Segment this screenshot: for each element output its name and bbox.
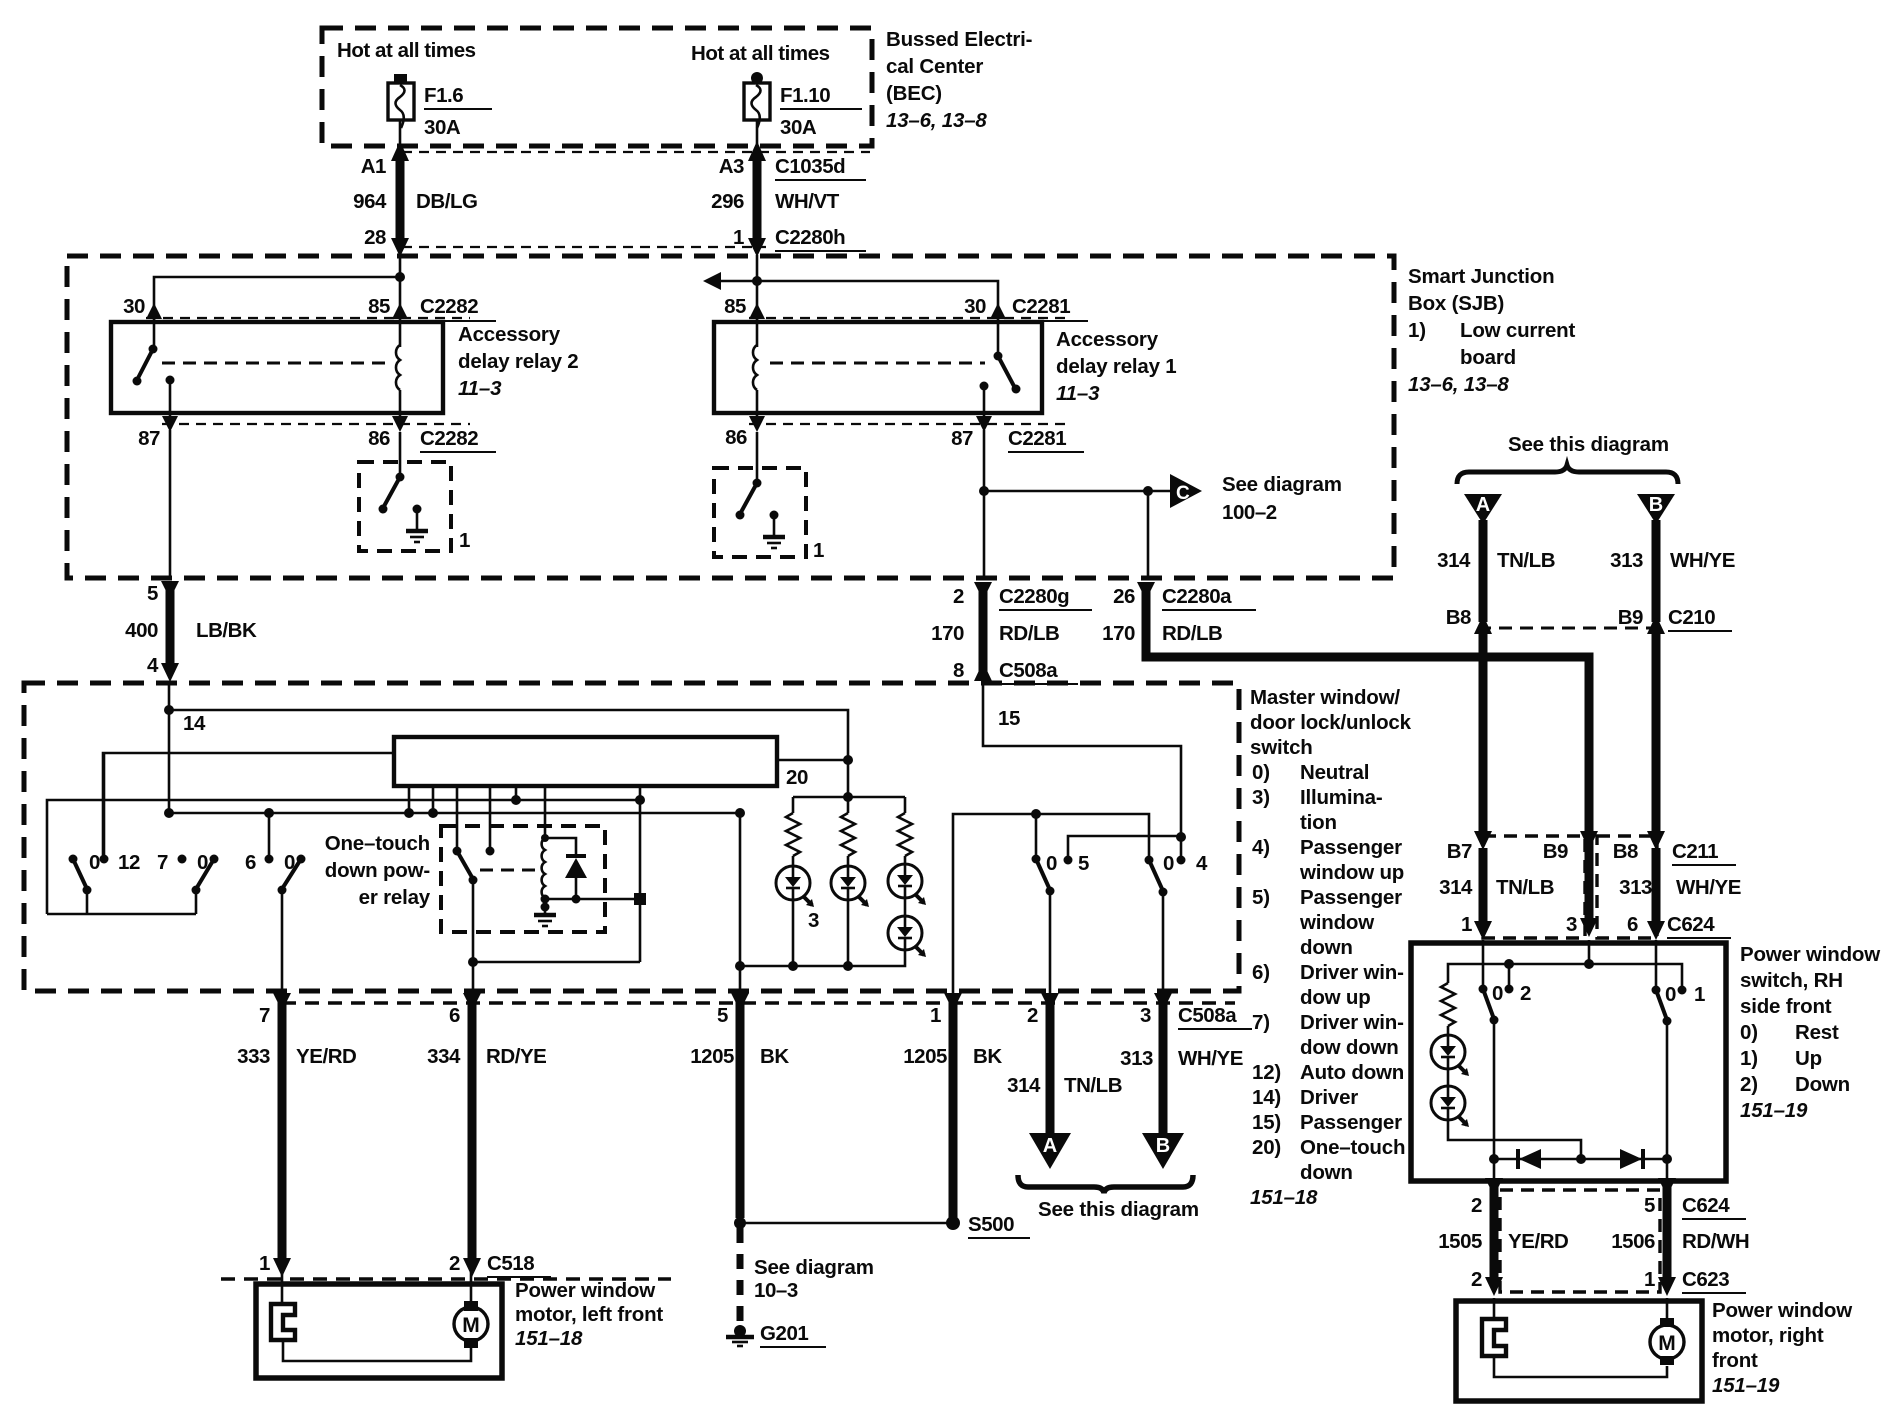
svg-text:C2282: C2282 — [420, 427, 478, 450]
svg-text:M: M — [1658, 1332, 1676, 1355]
node: pin 14 junction — [164, 705, 174, 715]
wire: bus left edge to contact 12 — [103, 753, 395, 855]
node: rail at LED1 — [788, 961, 798, 971]
node: rail at contact 2 stub — [1504, 959, 1514, 969]
svg-text:delay relay 1: delay relay 1 — [1056, 355, 1177, 378]
fuse F1.10 30A — [744, 72, 770, 128]
ground symbol (one-touch relay) — [534, 899, 556, 926]
resistor R3 (illumination branch 3) — [898, 797, 912, 865]
box: Master window/door lock/unlock switch — [24, 683, 1239, 991]
wire: pin 28 into SJB down to node — [399, 255, 402, 277]
node: LB at switch 3 feed — [264, 808, 274, 818]
svg-text:1: 1 — [459, 529, 470, 552]
svg-text:6): 6) — [1252, 961, 1270, 984]
label: F1.6 / 30A — [424, 84, 492, 139]
svg-text:See this diagram: See this diagram — [1508, 433, 1669, 456]
svg-text:30: 30 — [964, 295, 986, 318]
svg-text:86: 86 — [368, 427, 390, 450]
wire: bus stub 2 — [432, 786, 435, 813]
node: junction 15 at contact 4 — [1176, 832, 1186, 842]
svg-text:85: 85 — [724, 295, 746, 318]
wire: right motor internal loop — [1494, 1356, 1667, 1377]
node: right output at diode rail — [1662, 1154, 1672, 1164]
svg-text:RD/YE: RD/YE — [486, 1045, 546, 1068]
svg-text:Passenger: Passenger — [1300, 886, 1402, 909]
svg-text:14): 14) — [1252, 1086, 1281, 1109]
node: diode bottom — [572, 895, 581, 904]
svg-text:30A: 30A — [780, 116, 817, 139]
svg-text:TN/LB: TN/LB — [1064, 1074, 1122, 1097]
svg-text:C2282: C2282 — [420, 295, 478, 318]
wire: fuse F1.6 to A1 — [399, 120, 402, 150]
switch: RH down (0/2) — [1479, 985, 1514, 1025]
LED 3 (illumination) — [888, 864, 926, 905]
wire: stub to contact 2 — [1508, 964, 1511, 989]
svg-text:C: C — [1176, 483, 1190, 504]
svg-text:C623: C623 — [1682, 1268, 1729, 1291]
svg-text:314: 314 — [1439, 876, 1473, 899]
node: LA junction stub7 — [635, 795, 645, 805]
svg-text:A3: A3 — [719, 155, 744, 178]
svg-text:0): 0) — [1740, 1021, 1758, 1044]
ground G201 — [726, 1325, 754, 1346]
svg-text:1: 1 — [1644, 1268, 1655, 1291]
svg-text:B9: B9 — [1618, 606, 1643, 629]
svg-text:314: 314 — [1007, 1074, 1041, 1097]
svg-text:F1.6: F1.6 — [424, 84, 463, 107]
motor M1 (left front) — [454, 1301, 488, 1348]
svg-text:0): 0) — [1252, 761, 1270, 784]
svg-text:See diagram: See diagram — [1222, 473, 1342, 496]
wire: drop to contact 4 — [1180, 837, 1183, 860]
wire 1205 BK (thick, master 1 to S500) — [944, 993, 962, 1218]
svg-text:B: B — [1649, 494, 1663, 516]
svg-text:Illumina-: Illumina- — [1300, 786, 1382, 809]
svg-text:Master window/: Master window/ — [1250, 686, 1400, 709]
switch in ground box (relay 2) — [396, 473, 405, 482]
wire 964 DB/LG (thick, A1 to pin 28) — [391, 141, 409, 161]
svg-text:0: 0 — [1046, 852, 1057, 875]
svg-text:5: 5 — [1078, 852, 1089, 875]
switch: passenger window (0/4) — [1145, 856, 1186, 994]
svg-text:switch, RH: switch, RH — [1740, 969, 1843, 992]
svg-text:1: 1 — [259, 1252, 270, 1275]
svg-text:1205: 1205 — [690, 1045, 734, 1068]
relay 1 coil — [753, 319, 757, 413]
svg-text:Driver: Driver — [1300, 1086, 1358, 1109]
svg-text:G201: G201 — [760, 1322, 808, 1345]
svg-text:0: 0 — [89, 851, 100, 874]
wire 1205 BK (thick, master 5 to S500) — [731, 993, 749, 1218]
svg-text:dow up: dow up — [1300, 986, 1371, 1009]
wire: bus to illumination node — [777, 759, 848, 762]
svg-text:RD/LB: RD/LB — [1162, 622, 1222, 645]
svg-text:B: B — [1156, 1135, 1170, 1157]
svg-text:87: 87 — [951, 427, 973, 450]
connector arrow C — [1170, 474, 1202, 508]
svg-text:tion: tion — [1300, 811, 1337, 834]
svg-text:(BEC): (BEC) — [886, 82, 942, 105]
label: Master window/door lock/unlock switch legend — [1250, 686, 1412, 1209]
box: SJB internal ground switch (relay 1) — [714, 468, 806, 557]
svg-text:delay relay 2: delay relay 2 — [458, 350, 579, 373]
svg-text:151–18: 151–18 — [1250, 1186, 1318, 1209]
svg-text:Passenger: Passenger — [1300, 1111, 1402, 1134]
svg-text:85: 85 — [368, 295, 390, 318]
svg-text:86: 86 — [725, 426, 747, 449]
wire: bus stub 5 — [515, 786, 518, 800]
wire: fuse F1.10 to A3 — [756, 120, 759, 150]
node: junction with illumination feed — [843, 755, 853, 765]
node: rail to LA drop — [634, 893, 646, 905]
wire: line LA from left riser — [47, 800, 640, 914]
svg-text:151–19: 151–19 — [1740, 1099, 1808, 1122]
wire: pin1 to regulator — [281, 1272, 284, 1304]
svg-text:A1: A1 — [361, 155, 386, 178]
svg-text:F1.10: F1.10 — [780, 84, 830, 107]
svg-text:20): 20) — [1252, 1136, 1281, 1159]
switch: driver window up (6/0) — [265, 813, 306, 993]
wire: pin 3 into RH switch to rail — [1588, 940, 1591, 964]
svg-text:400: 400 — [125, 619, 158, 642]
node: LB at pin 5 riser — [735, 808, 745, 818]
wire: stub arrow pointing left from node — [714, 280, 757, 283]
one-touch relay coil — [541, 834, 549, 899]
svg-text:C508a: C508a — [1178, 1004, 1237, 1027]
one-touch relay switch — [453, 847, 478, 963]
svg-text:6: 6 — [1627, 913, 1638, 936]
svg-text:down: down — [1300, 1161, 1353, 1184]
wire: pin 1 into RH switch — [1482, 940, 1485, 989]
svg-text:8: 8 — [953, 659, 964, 682]
svg-text:13–6, 13–8: 13–6, 13–8 — [886, 109, 987, 132]
LED 6 (RH illumination) — [1431, 1069, 1469, 1127]
svg-text:Driver win-: Driver win- — [1300, 961, 1404, 984]
svg-text:S500: S500 — [968, 1213, 1014, 1236]
box: Smart Junction Box (SJB) — [67, 256, 1394, 578]
wire: illumination node down to LED rail — [847, 760, 850, 797]
svg-text:3: 3 — [1566, 913, 1577, 936]
svg-text:6: 6 — [245, 851, 256, 874]
node: LB at stub 1 — [404, 808, 414, 818]
switch: passenger window (0/5) — [1032, 855, 1073, 994]
svg-text:313: 313 — [1619, 876, 1652, 899]
wire: coil/diode bottom rail — [545, 898, 640, 901]
svg-text:B8: B8 — [1446, 606, 1471, 629]
svg-text:BK: BK — [760, 1045, 789, 1068]
brace under A/B — [1018, 1175, 1193, 1193]
svg-text:2: 2 — [1520, 982, 1531, 1005]
wire: relay 2 pin 86 down to ground switch — [399, 413, 402, 421]
wire: branch to relay 2 pin 30 — [154, 277, 400, 308]
wire: pin 6 exit drop — [472, 962, 475, 993]
label: Bussed Electrical Center (BEC) 13-6, 13-8 — [886, 28, 1032, 132]
label: Smart Junction Box (SJB) legend — [1408, 265, 1575, 396]
label: Accessory delay relay 1 / 11-3 — [1056, 328, 1177, 405]
svg-text:window up: window up — [1299, 861, 1404, 884]
svg-text:Bussed Electri-: Bussed Electri- — [886, 28, 1032, 51]
svg-text:down pow-: down pow- — [325, 859, 430, 882]
svg-text:WH/YE: WH/YE — [1676, 876, 1741, 899]
svg-text:RD/WH: RD/WH — [1682, 1230, 1749, 1253]
relay: Accessory delay relay 1 box — [714, 322, 1042, 413]
svg-text:front: front — [1712, 1349, 1758, 1372]
pin 87 terminal relay 2 — [166, 376, 175, 385]
svg-text:Up: Up — [1795, 1047, 1822, 1070]
svg-text:4): 4) — [1252, 836, 1270, 859]
node: junction on 296 feed — [752, 276, 762, 286]
wire: drop from junction to SJB exit 26 — [1147, 491, 1150, 578]
svg-text:11–3: 11–3 — [458, 377, 502, 400]
wire: bus stub to relay pin — [489, 786, 492, 851]
wire: line LB across switches — [169, 812, 740, 815]
svg-text:YE/RD: YE/RD — [1508, 1230, 1568, 1253]
svg-text:YE/RD: YE/RD — [296, 1045, 356, 1068]
svg-text:RD/LB: RD/LB — [999, 622, 1059, 645]
node: LED return at diode rail — [1576, 1154, 1586, 1164]
box: SJB internal ground switch (relay 2) — [359, 462, 451, 551]
wire 400 LB/BK (thick, SJB 5 to master 4) — [161, 581, 179, 682]
svg-text:7: 7 — [259, 1004, 270, 1027]
svg-text:2: 2 — [1027, 1004, 1038, 1027]
svg-text:B8: B8 — [1613, 840, 1638, 863]
svg-text:Accessory: Accessory — [1056, 328, 1159, 351]
resistor R4 (RH illumination) — [1441, 981, 1455, 1035]
wire: RH switch left output — [1493, 1020, 1496, 1181]
svg-text:7): 7) — [1252, 1011, 1270, 1034]
svg-text:4: 4 — [1196, 852, 1208, 875]
svg-text:Down: Down — [1795, 1073, 1850, 1096]
svg-text:170: 170 — [1102, 622, 1135, 645]
wire 334 RD/YE (thick, master 6 to motor 2) — [463, 993, 481, 1277]
wire: B7 to pin 1 (thick) — [1479, 848, 1488, 925]
wire: drop to passenger down pivot — [1035, 814, 1038, 859]
svg-text:BK: BK — [973, 1045, 1002, 1068]
svg-text:WH/YE: WH/YE — [1670, 549, 1735, 572]
ground symbol (relay 2 box) — [406, 505, 428, 543]
wire: relay output rail to pin 6 drop — [473, 961, 640, 964]
LED rail top (illumination) — [793, 796, 905, 799]
svg-text:5: 5 — [717, 1004, 728, 1027]
svg-text:Hot at all times: Hot at all times — [337, 39, 476, 62]
svg-text:door lock/unlock: door lock/unlock — [1250, 711, 1412, 734]
connector line C2281 top (relay 1 pins 85/30) — [749, 317, 1072, 319]
svg-text:3: 3 — [1140, 1004, 1151, 1027]
svg-text:C2280g: C2280g — [999, 585, 1069, 608]
svg-text:3: 3 — [808, 909, 819, 932]
node: rail at LED2 — [843, 961, 853, 971]
wire: bus stub 1 — [408, 786, 411, 813]
node: feed at passenger down pivot — [1031, 809, 1041, 819]
connector line C2281 bottom (relay 1 pins 86/87) — [749, 423, 1072, 425]
wire 170 RD/LB (thick, SJB 2 to master 8) — [974, 582, 992, 681]
label: Power window motor, right front 151-19 — [1712, 1299, 1852, 1397]
svg-text:1: 1 — [1461, 913, 1472, 936]
svg-text:12: 12 — [118, 851, 140, 874]
connector line C2282 bottom (relay 2 pins 87/86) — [162, 423, 470, 425]
svg-text:Low current: Low current — [1460, 319, 1575, 342]
wire 313 WH/YE (thick, B to B9) — [1652, 520, 1661, 622]
svg-text:Box (SJB): Box (SJB) — [1408, 292, 1504, 315]
wire: pin 8/15 entry — [983, 683, 1181, 837]
svg-text:C624: C624 — [1682, 1194, 1730, 1217]
svg-text:C518: C518 — [487, 1252, 534, 1275]
box: power window motor left front — [256, 1284, 502, 1378]
wire: relay 1 pin 87 down to node — [983, 430, 986, 578]
LED 2 (illumination) — [831, 866, 869, 907]
svg-text:1: 1 — [813, 539, 824, 562]
node: LA junction stub5 — [511, 795, 521, 805]
one-touch relay clamp diode — [545, 838, 587, 899]
wire: 14 feed line to LED branch — [169, 710, 848, 760]
svg-text:0: 0 — [284, 851, 295, 874]
svg-text:Rest: Rest — [1795, 1021, 1839, 1044]
wire 1506 RD/WH (thick, RH 5 to motor 1) — [1658, 1178, 1676, 1296]
svg-text:B9: B9 — [1543, 840, 1568, 863]
wire 1505 YE/RD (thick, RH 2 to motor 2) — [1485, 1178, 1503, 1296]
wire: feed to relay 2 pin 85 — [399, 277, 402, 308]
svg-text:1): 1) — [1408, 319, 1426, 342]
label: Accessory delay relay 2 / 11-3 — [458, 323, 579, 400]
svg-text:Power window: Power window — [515, 1279, 655, 1302]
svg-text:Power window: Power window — [1740, 943, 1880, 966]
node: coil bottom — [541, 895, 550, 904]
resistor R2 (illumination branch 2) — [841, 797, 855, 867]
wire: bus stub to relay switch — [456, 786, 459, 851]
svg-text:1205: 1205 — [903, 1045, 947, 1068]
diode D2 (pointing right) — [1620, 1149, 1643, 1169]
wire: relay 2 pin 87 down to SJB exit 5 — [169, 430, 172, 578]
svg-text:1: 1 — [1694, 983, 1705, 1006]
connector line C518 — [221, 1277, 671, 1280]
wire: bus stub 7 — [639, 786, 642, 800]
ground symbol (relay 1 box) — [763, 511, 785, 549]
svg-text:C2281: C2281 — [1008, 427, 1066, 450]
svg-text:Neutral: Neutral — [1300, 761, 1369, 784]
connector line C2282 top (relay 2 pins 30/85) — [146, 317, 470, 319]
node: junction 87 branch — [979, 486, 989, 496]
dashed actuator link relay 1 — [770, 362, 985, 365]
switch contacts inside relay 1 — [994, 319, 1021, 394]
relay pin terminal dot — [486, 847, 495, 856]
wire 313 WH/YE (thick, master 3 to B) — [1154, 993, 1172, 1135]
svg-text:15): 15) — [1252, 1111, 1281, 1134]
box: one-touch down power relay — [441, 826, 605, 932]
connector line C210 — [1478, 627, 1653, 630]
switch: RH up (0/1) — [1652, 986, 1687, 1026]
wire: common rail U — [47, 913, 196, 916]
svg-text:10–3: 10–3 — [754, 1279, 798, 1302]
arrow into C211 for pin 3 drop — [1580, 831, 1598, 850]
svg-text:TN/LB: TN/LB — [1497, 549, 1555, 572]
svg-text:2: 2 — [1471, 1194, 1482, 1217]
svg-text:313: 313 — [1610, 549, 1643, 572]
svg-text:13–6, 13–8: 13–6, 13–8 — [1408, 373, 1509, 396]
svg-text:314: 314 — [1437, 549, 1471, 572]
window regulator symbol (left motor) — [271, 1304, 295, 1340]
svg-text:motor, left front: motor, left front — [515, 1303, 663, 1326]
svg-text:3): 3) — [1252, 786, 1270, 809]
svg-text:C2281: C2281 — [1012, 295, 1070, 318]
node: rail at pin 5 riser — [735, 961, 745, 971]
svg-text:cal Center: cal Center — [886, 55, 983, 78]
wire: bus stub to relay coil — [544, 786, 547, 838]
svg-text:1): 1) — [1740, 1047, 1758, 1070]
svg-text:window: window — [1299, 911, 1374, 934]
node: relay output at pin 6 drop — [468, 957, 478, 967]
svg-text:15: 15 — [998, 707, 1020, 730]
svg-text:87: 87 — [138, 427, 160, 450]
svg-text:C1035d: C1035d — [775, 155, 845, 178]
wire: dashed drop to G201 — [737, 1228, 744, 1326]
svg-text:Auto down: Auto down — [1300, 1061, 1404, 1084]
svg-text:1: 1 — [733, 226, 744, 249]
LED 4 (illumination) — [888, 898, 926, 957]
wire: pin 1 C2280h into SJB down to node — [756, 255, 759, 281]
wire: left motor internal loop — [283, 1340, 471, 1361]
wire 333 YE/RD (thick, master 7 to motor 1) — [273, 993, 291, 1277]
label: One-touch down power relay — [325, 832, 431, 909]
wire: passenger switch feed line — [953, 814, 1149, 993]
connector line 28/1 (SJB face C2280h) — [402, 246, 766, 248]
connector triangle B (bottom) — [1142, 1133, 1184, 1169]
wire: pin 6 into RH switch — [1655, 940, 1658, 990]
svg-text:0: 0 — [1665, 983, 1676, 1006]
node: LB at stub 2 — [428, 808, 438, 818]
box: connector C624/C623 — [1500, 1190, 1660, 1292]
motor M2 (right front) — [1650, 1318, 1684, 1365]
svg-text:motor, right: motor, right — [1712, 1324, 1824, 1347]
wire: RH switch right output — [1666, 1021, 1669, 1181]
svg-text:12): 12) — [1252, 1061, 1281, 1084]
svg-text:WH/VT: WH/VT — [775, 190, 840, 213]
svg-text:See diagram: See diagram — [754, 1256, 874, 1279]
svg-text:2: 2 — [449, 1252, 460, 1275]
box: Bussed Electrical Center (BEC) — [322, 28, 872, 146]
svg-text:Driver win-: Driver win- — [1300, 1011, 1404, 1034]
connector line A1/A3 (BEC face) — [402, 151, 870, 153]
svg-text:TN/LB: TN/LB — [1496, 876, 1554, 899]
window regulator symbol (right motor) — [1482, 1319, 1506, 1356]
wire 170 RD/LB (thick L, SJB 26 to C624 pin 3) — [1137, 582, 1598, 937]
svg-text:28: 28 — [364, 226, 386, 249]
svg-text:14: 14 — [183, 712, 206, 735]
switch bus bar (contact block) — [394, 737, 777, 786]
wire: LED bottom rail — [740, 950, 905, 966]
svg-text:20: 20 — [786, 766, 808, 789]
svg-text:One–touch: One–touch — [1300, 1136, 1405, 1159]
connector triangle B (top) — [1637, 494, 1675, 524]
relay 2 coil — [396, 319, 400, 413]
wire: branch to connector C — [984, 490, 1170, 493]
node: junction to C2280a drop — [1143, 486, 1153, 496]
svg-text:30: 30 — [123, 295, 145, 318]
wire: drop from LA to relay output rail — [639, 800, 642, 962]
wire: B8 to pin 6 (thick) — [1652, 848, 1661, 925]
wire: diode rail — [1494, 1158, 1667, 1161]
label: Power window motor, left front 151-18 — [515, 1279, 663, 1350]
wire: LED1 to bottom rail — [792, 899, 795, 966]
svg-text:1: 1 — [930, 1004, 941, 1027]
svg-text:C210: C210 — [1668, 606, 1715, 629]
svg-text:er relay: er relay — [359, 886, 431, 909]
wire: pin 5 riser — [739, 813, 742, 993]
svg-text:1505: 1505 — [1438, 1230, 1482, 1253]
svg-text:board: board — [1460, 346, 1516, 369]
wire: pin 4 entry vertical — [168, 683, 171, 813]
box: power window motor right front — [1456, 1301, 1702, 1401]
svg-text:151–18: 151–18 — [515, 1327, 583, 1350]
